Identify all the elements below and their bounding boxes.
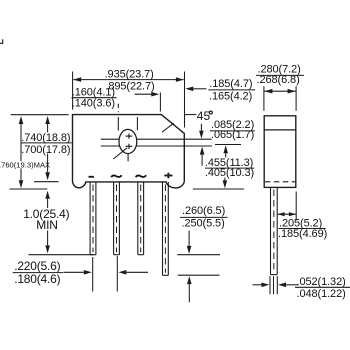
svg-text:.260(6.5): .260(6.5) (182, 205, 225, 217)
svg-text:.760(19.3)MAX: .760(19.3)MAX (0, 161, 50, 170)
svg-text:.052(1.32): .052(1.32) (297, 276, 346, 288)
svg-text:.185(4.7): .185(4.7) (209, 78, 252, 90)
svg-text:MIN: MIN (36, 218, 57, 232)
svg-text:.740(18.8): .740(18.8) (21, 132, 70, 144)
svg-text:45: 45 (197, 109, 211, 123)
svg-text:.935(23.7): .935(23.7) (105, 69, 154, 81)
svg-text:.065(1.7): .065(1.7) (211, 129, 254, 141)
svg-text:.250(5.5): .250(5.5) (182, 217, 225, 229)
svg-text:.140(3.6): .140(3.6) (72, 98, 115, 110)
svg-text:.405(10.3): .405(10.3) (205, 167, 254, 179)
svg-text:.185(4.69): .185(4.69) (278, 228, 327, 240)
svg-text:.268(6.8): .268(6.8) (257, 74, 300, 86)
svg-text:.048(1.22): .048(1.22) (297, 288, 346, 300)
svg-text:.700(17.8): .700(17.8) (21, 144, 70, 156)
svg-text:.180(4.6): .180(4.6) (14, 272, 60, 286)
svg-text:.165(4.2): .165(4.2) (209, 91, 252, 103)
